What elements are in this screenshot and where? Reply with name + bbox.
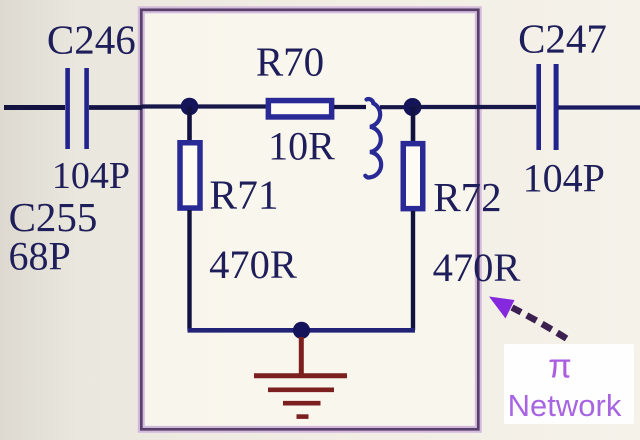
svg-text:104P: 104P bbox=[52, 155, 130, 197]
wire: coil to right junction bbox=[380, 105, 412, 109]
junction node bottom bbox=[293, 322, 310, 339]
annotation panel bbox=[504, 344, 634, 424]
svg-text:Network: Network bbox=[508, 388, 622, 423]
svg-text:470R: 470R bbox=[209, 242, 297, 287]
svg-text:R71: R71 bbox=[209, 172, 278, 218]
svg-text:R72: R72 bbox=[433, 174, 501, 220]
inductor coil bbox=[365, 99, 381, 177]
resistor R72 bbox=[403, 144, 423, 209]
svg-text:R70: R70 bbox=[256, 39, 324, 85]
wire: box edge to R70 bbox=[142, 104, 266, 108]
wire: R71 down to bottom rail bbox=[187, 210, 191, 330]
capacitor C246 bbox=[65, 68, 89, 149]
resistor R71 bbox=[180, 143, 200, 208]
pi network highlight box bbox=[141, 10, 478, 430]
wire: bottom rail bbox=[188, 328, 416, 333]
svg-text:104P: 104P bbox=[523, 156, 605, 201]
svg-text:470R: 470R bbox=[433, 245, 521, 290]
resistor R70 bbox=[268, 101, 331, 117]
wire: left input bbox=[4, 105, 65, 110]
wire: C246 to box bbox=[89, 105, 142, 110]
ground bbox=[254, 337, 347, 417]
svg-text:10R: 10R bbox=[268, 124, 335, 169]
junction node right bbox=[404, 98, 422, 116]
junction node left bbox=[181, 98, 199, 116]
svg-text:C246: C246 bbox=[47, 17, 136, 63]
svg-text:C247: C247 bbox=[518, 16, 607, 62]
wire: R70 to coil bbox=[334, 105, 366, 109]
svg-text:π: π bbox=[548, 348, 571, 386]
svg-text:68P: 68P bbox=[8, 234, 70, 279]
capacitor C247 bbox=[536, 64, 558, 150]
annotation arrow bbox=[489, 297, 567, 339]
wire: right output bbox=[558, 105, 640, 109]
wire: left junction down to R71 bbox=[187, 107, 192, 142]
wire: R72 down to bottom rail bbox=[411, 211, 415, 330]
wire: junction through box edge to C247 bbox=[412, 105, 536, 109]
wire: right junction down to R72 bbox=[411, 107, 416, 142]
